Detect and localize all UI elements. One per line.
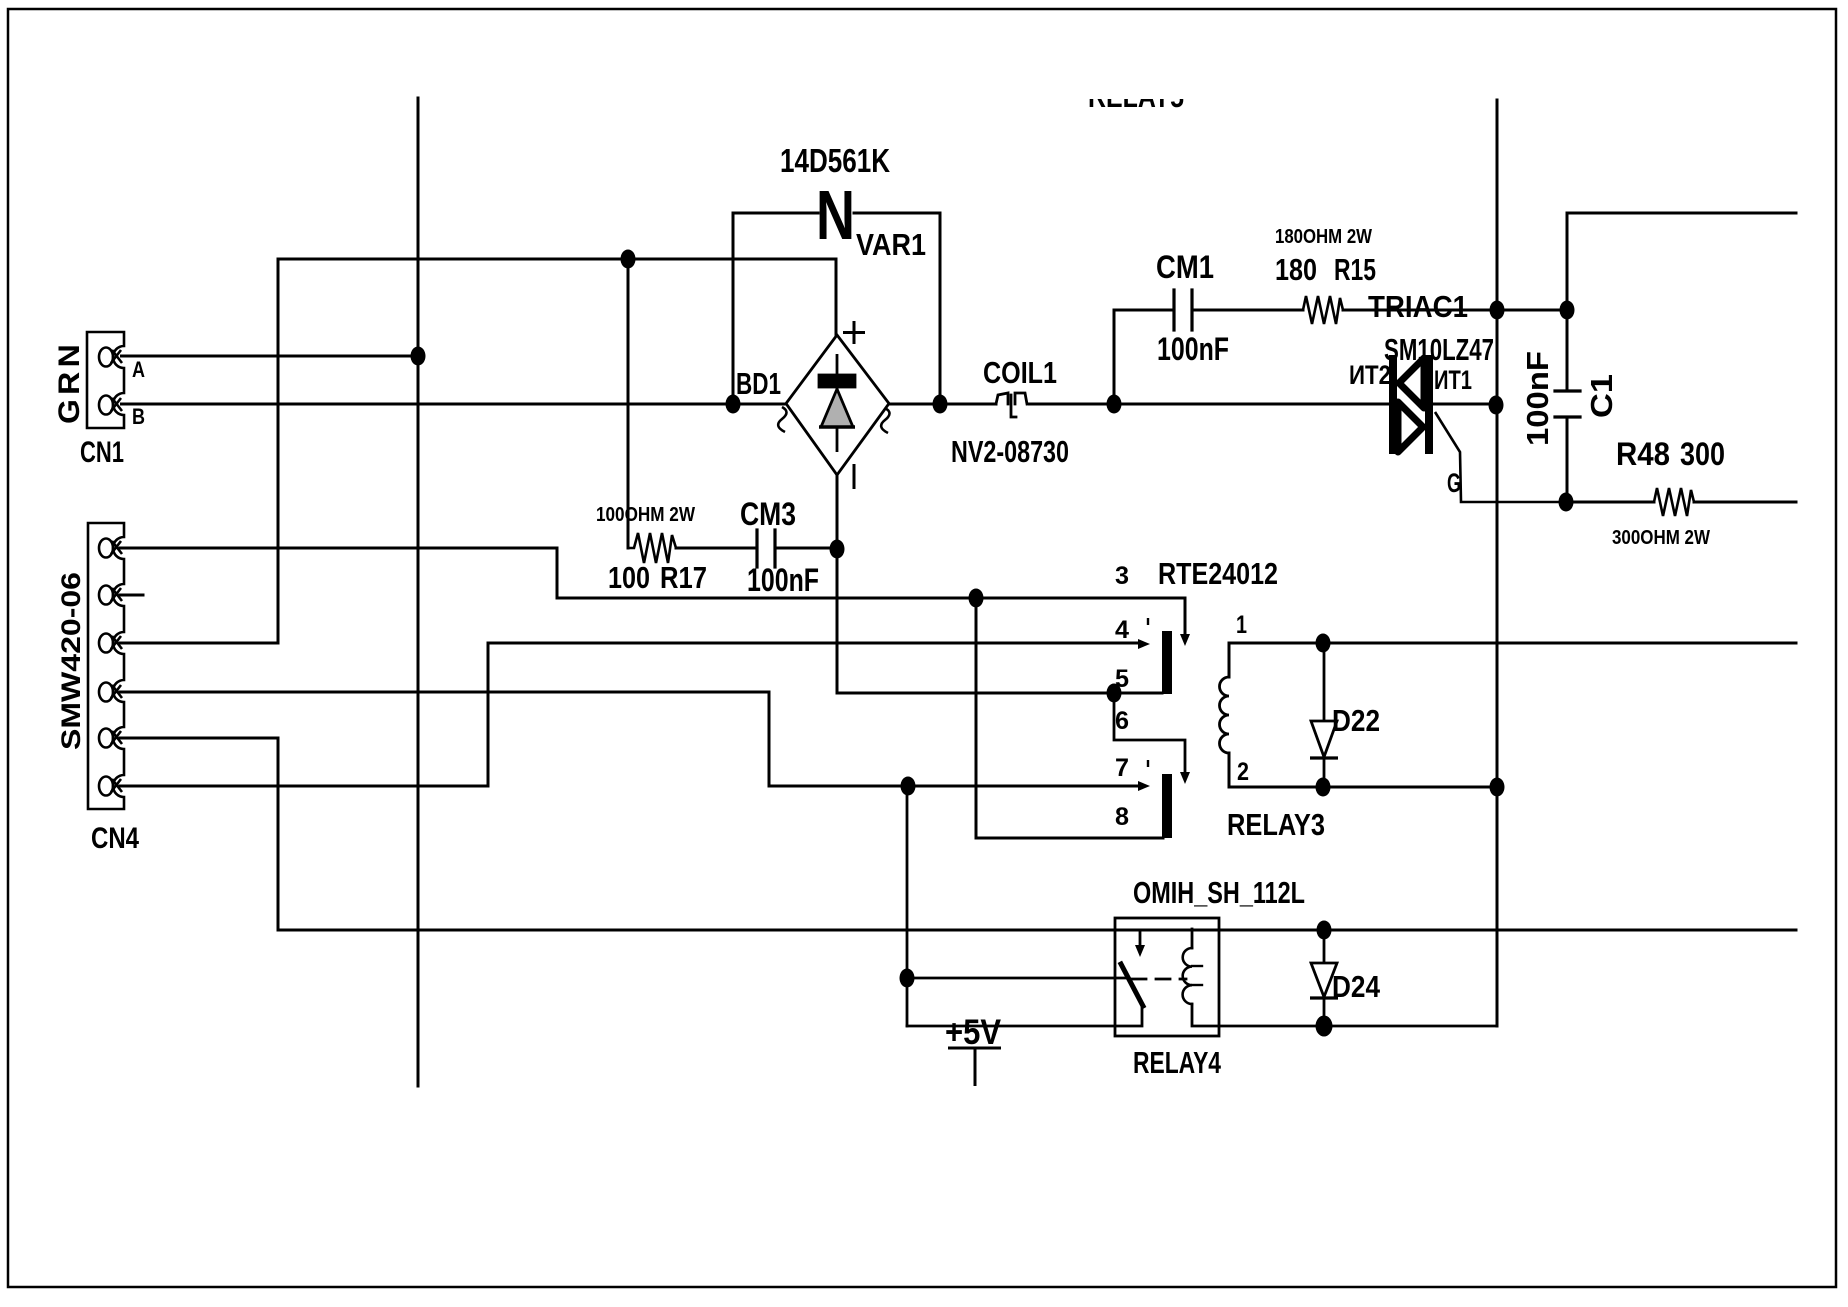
svg-text:100nF: 100nF [1157,331,1229,367]
wire CM3 to BD1 bottom node [775,547,837,550]
svg-text:100nF: 100nF [1520,351,1555,446]
junction dot top bus / R17 drop [621,250,636,269]
svg-text:100OHM 2W: 100OHM 2W [596,504,695,526]
clipped text RELAY5 at top [1088,79,1184,114]
minus mark [853,464,856,489]
junction dot VAR1-right / wire [933,395,948,414]
junction dot armature feed [900,969,915,988]
svg-text:BD1: BD1 [736,366,781,401]
diode D22 [1310,643,1338,787]
capacitor CM3 plates [755,530,758,567]
resistor R48 zigzag [1654,488,1694,516]
pin3 arrowhead [1180,634,1190,646]
svg-text:VAR1: VAR1 [856,227,926,262]
wire pin1 rail [1229,643,1796,677]
connector CN4 [88,523,124,809]
wire VAR1 right branch [854,213,940,404]
junction dot MT1 / V2 [1489,396,1504,415]
junction dot CM3 / BD1 bottom [830,540,845,559]
junction dot D24 bottom / coil rail [1316,1016,1333,1037]
wire COIL1 node up and to CM1 [1114,310,1174,404]
svg-text:4: 4 [1115,616,1129,644]
junction dot COIL1 right / CM1 drop [1107,395,1122,414]
wire R48 right [1694,501,1796,504]
svg-text:TRIAC1: TRIAC1 [1368,289,1468,324]
junction dot gate wire / C1 bottom [1559,493,1574,512]
plus mark [843,321,865,344]
wire BD1 minus to RTE pin5 [837,692,1162,695]
link common arrowhead [1180,772,1190,784]
svg-text:2: 2 [1237,758,1249,786]
svg-text:7: 7 [1115,754,1129,782]
contact bar upper [1162,631,1172,694]
power +5V [948,1048,1001,1086]
wire coil top drop [1191,929,1194,948]
contact bar lower [1162,774,1172,838]
wire branch to RTE pin8 [976,598,1163,838]
svg-text:RELAY4: RELAY4 [1133,1045,1222,1080]
coil winding [1183,948,1192,1004]
svg-text:RELAY3: RELAY3 [1227,807,1325,842]
junction dot VAR1-left / wire B [726,395,741,414]
svg-text:COIL1: COIL1 [983,355,1057,390]
svg-text:180: 180 [1275,252,1317,287]
wire blade bottom pin [907,1006,1142,1026]
svg-text:N: N [816,176,855,254]
wire C1 bottom [1566,417,1569,502]
svg-text:300: 300 [1680,436,1725,472]
inductor COIL1 [889,393,1389,417]
wire CN1-B to BD1 [120,403,786,406]
coil ticks [1192,965,1202,967]
wire TRIAC MT1 to V2 [1433,403,1497,406]
junction dot pin4-net/relay4 branch [901,777,916,796]
pin7 arrowhead [1138,781,1150,791]
wire top right rail [1567,213,1796,391]
svg-text:B: B [132,404,145,429]
wire to R48 [1567,501,1654,504]
wire CN4 pin2 stub [120,594,143,597]
svg-text:A: A [132,357,145,382]
wire CN4 pin6 net to RTE pin4 [120,643,1141,786]
resistor R15 zigzag [1303,296,1343,324]
pin4 tick [1147,618,1149,625]
svg-text:G: G [1447,468,1461,498]
wire BD1 bottom vertical [836,475,839,693]
svg-text:+5V: +5V [945,1013,1002,1052]
svg-text:D24: D24 [1332,969,1381,1004]
junction dot BD1 minus wire / link [1107,684,1122,703]
wire coil bottom to V2 corner [1192,1004,1497,1026]
wire CM1 to R15 [1192,309,1303,312]
svg-text:SMW420-06: SMW420-06 [56,572,86,750]
svg-text:6: 6 [1115,707,1129,735]
svg-text:RTE24012: RTE24012 [1158,556,1278,591]
svg-text:CM1: CM1 [1156,249,1214,285]
svg-text:CM3: CM3 [740,496,796,532]
wire link pin5 node to lower common [1114,693,1185,779]
svg-text:OMIH_SH_112L: OMIH_SH_112L [1133,875,1305,910]
svg-text:D22: D22 [1332,703,1380,738]
svg-text:R15: R15 [1334,252,1376,287]
junction dot D22 top / pin1 rail [1316,634,1331,653]
junction dot pin1-net/V-branch [969,589,984,608]
pin4 arrowhead [1138,639,1150,649]
AC tilde left [778,407,786,432]
relay body box [1115,918,1219,1036]
junction dot R15 net / C1 top [1560,301,1575,320]
relay RELAY3 coil [1220,643,1797,787]
AC tilde right [881,408,889,433]
resistor R17 zigzag [628,533,676,563]
svg-text:3: 3 [1115,562,1129,590]
svg-text:ИT2: ИT2 [1349,360,1391,390]
svg-text:SM10LZ47: SM10LZ47 [1384,332,1494,367]
resistor R17 and capacitor CM3 branch [628,259,1162,693]
junction dot pin2 rail / V2 [1490,778,1505,797]
svg-text:8: 8 [1115,803,1129,831]
wire R15 to V2 and C1 [1343,309,1567,312]
wire CN1-A to V1 [120,355,418,358]
wire CN4 pin5 long bottom net [120,738,1796,930]
wire CN4 pin4 net to RTE pin7 [120,692,1143,786]
svg-text:C1: C1 [1584,374,1619,418]
capacitor C1 and resistor R48 [1555,213,1796,516]
svg-text:CN4: CN4 [91,822,139,855]
wire top bus drop to R17 [627,259,630,548]
coil winding [1220,677,1230,753]
capacitor CM1 and resistor R15 branch [1114,290,1567,404]
svg-text:5: 5 [1115,665,1129,693]
wire R17 to CM3 [676,547,757,550]
junction dot R15 net / V2 [1490,301,1505,320]
wire pin2 to V2 [1229,753,1497,787]
svg-text:1: 1 [1236,611,1247,639]
junction dot D24 top / bottom rail [1317,921,1332,940]
relay RELAY4 OMIH_SH_112L [907,786,1497,1036]
svg-text:ИT1: ИT1 [1434,365,1472,395]
bridge rectifier BD1 [778,321,889,489]
connector CN1 [87,332,124,428]
dashed actuator link [1132,978,1186,981]
junction dot D22 bottom / pin2 rail [1316,778,1331,797]
relay RTE24012 contacts [1138,618,1190,838]
wire vertical bus V2 [1496,100,1499,1026]
capacitor CM1 plates [1172,290,1175,330]
wire CN4 pin1 net to RTE pin3 [120,548,1185,641]
svg-text:CN1: CN1 [80,436,124,469]
switch blade [1121,964,1143,1006]
wire BD1 right to TRIAC [889,403,996,406]
capacitor C1 plates [1555,389,1580,392]
junction dot A/V1 [411,347,426,366]
coil hump symbol [996,393,1027,417]
pin7 tick [1147,760,1149,767]
svg-text:GRN: GRN [53,340,86,424]
wire relay4 arm net vertical [906,786,909,1026]
varistor VAR1 14D561K [733,213,940,404]
wire vertical bus V1 [417,98,420,1086]
svg-text:14D561K: 14D561K [780,142,890,179]
wire switch drop from top rail [1139,930,1142,949]
svg-text:180OHM 2W: 180OHM 2W [1275,226,1372,248]
triac TRIAC1 SM10LZ47 [1389,355,1433,454]
svg-text:100: 100 [608,560,650,595]
wire CN4 pin3 to top bus [120,259,836,643]
svg-text:300OHM 2W: 300OHM 2W [1612,527,1710,549]
wire TRIAC gate [1435,412,1567,502]
wire VAR1 left branch [733,213,818,404]
svg-text:R48: R48 [1616,436,1670,472]
switch arrowhead [1135,945,1145,957]
wire armature feed [907,977,1125,980]
svg-text:R17: R17 [660,560,707,595]
svg-text:100nF: 100nF [747,562,819,598]
svg-text:NV2-08730: NV2-08730 [951,434,1069,469]
diode D24 [1310,930,1338,1026]
